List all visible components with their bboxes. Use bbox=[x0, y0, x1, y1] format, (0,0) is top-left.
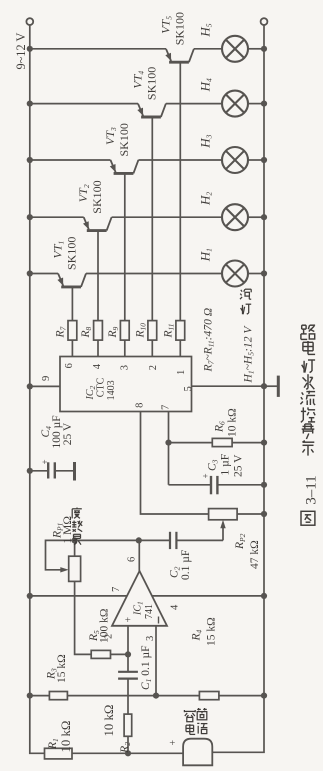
junction ground rail H4 bbox=[261, 101, 267, 107]
wire lamp H5 to ground rail bbox=[248, 48, 264, 50]
svg-text:47 kΩ: 47 kΩ bbox=[249, 540, 261, 569]
lamp H5 bbox=[222, 36, 248, 62]
junction +input node bbox=[125, 651, 131, 657]
electret microphone BM bbox=[183, 739, 212, 766]
resistor R10 bbox=[148, 321, 157, 341]
junction ground rail H5 bbox=[261, 46, 267, 52]
wire emitter VT1 from +rail bbox=[30, 273, 58, 275]
capacitor C2 0.1uF bbox=[170, 532, 176, 549]
wire R11 to IC2 pin bbox=[179, 340, 181, 356]
junction +rail row H5... node bbox=[27, 270, 33, 276]
transistor VT2 SK100 (PNP) bbox=[83, 217, 112, 230]
resistor R7 bbox=[68, 321, 77, 341]
wire R9 to IC2 pin bbox=[124, 340, 126, 356]
junction RP1 top bbox=[72, 537, 78, 543]
ground symbol right bbox=[264, 385, 278, 387]
junction +rail R3 bbox=[27, 693, 33, 699]
svg-text:3–11: 3–11 bbox=[304, 475, 320, 504]
transistor VT3 SK100 (PNP) bbox=[110, 160, 139, 173]
resistor R1 10k bbox=[45, 748, 73, 759]
junction +rail C4 bbox=[27, 468, 33, 474]
wire RP2 to ground rail bbox=[237, 513, 264, 515]
svg-text:7: 7 bbox=[111, 587, 122, 592]
svg-text:3: 3 bbox=[145, 636, 156, 641]
svg-text:SK100: SK100 bbox=[145, 67, 159, 100]
svg-text:10 kΩ: 10 kΩ bbox=[227, 408, 239, 437]
svg-text:4: 4 bbox=[92, 363, 103, 369]
resistor R5 100k bbox=[91, 650, 110, 658]
wire R6 to ground rail bbox=[232, 442, 264, 444]
resistor R4 15k bbox=[199, 692, 219, 700]
svg-text:4: 4 bbox=[170, 604, 181, 610]
junction ground rail pin5 bbox=[261, 383, 267, 389]
svg-text:SK100: SK100 bbox=[90, 180, 104, 213]
wire C1 to R2 (crosses bias wire) bbox=[127, 679, 129, 715]
wire RP1 bottom to R5 bbox=[75, 581, 92, 654]
label mic hanzi DianRongHuaTong bbox=[184, 710, 195, 722]
label sensitivity hanzi bbox=[72, 508, 82, 519]
junction +rail row H1... node bbox=[27, 46, 33, 52]
transistor VT4 SK100 (PNP) bbox=[137, 104, 166, 117]
wire lamp H4 to ground rail bbox=[248, 103, 264, 105]
capacitor C4 100uF 25V electrolytic bbox=[48, 462, 74, 478]
op-amp IC1 741 triangle bbox=[112, 571, 167, 626]
minus input mark bbox=[158, 617, 160, 624]
junction pin7 node bbox=[165, 440, 171, 446]
capacitor C1 0.1uF bbox=[118, 672, 138, 679]
lamp H1 bbox=[222, 261, 248, 287]
wire IC2 pin8 down to RP2 bbox=[141, 412, 209, 515]
IC2 CTC1403 box bbox=[60, 357, 192, 412]
svg-text:10 kΩ: 10 kΩ bbox=[59, 721, 73, 753]
junction ground rail H2 bbox=[261, 214, 267, 220]
wire base VT1 to R7 bbox=[71, 287, 73, 321]
svg-text:0.1 µF: 0.1 µF bbox=[180, 550, 192, 580]
svg-text:2: 2 bbox=[148, 365, 159, 370]
potentiometer RP1 1M bbox=[69, 556, 81, 581]
lamp H4 bbox=[222, 91, 248, 117]
wire base VT4 to R10 bbox=[151, 117, 153, 321]
label lamp hanzi DengPao bbox=[240, 289, 251, 299]
wire R3 to R4 bias rail bbox=[67, 695, 199, 697]
wire IC2 pin5 to ground rail bbox=[192, 385, 265, 387]
wire op-amp V- pin4 to ground rail bbox=[152, 595, 264, 597]
svg-text:CTC: CTC bbox=[96, 377, 107, 397]
svg-text:15 kΩ: 15 kΩ bbox=[206, 617, 218, 646]
wire +rail to op-amp V+ pin7 bbox=[30, 595, 127, 597]
svg-text:1 µF: 1 µF bbox=[220, 454, 232, 476]
resistor R3 15k bbox=[49, 692, 67, 700]
wiper RP2 bbox=[222, 527, 224, 540]
resistor R9 bbox=[120, 321, 129, 341]
wire collector VT4 to lamp H4 bbox=[166, 103, 222, 105]
junction ground rail H1 bbox=[261, 270, 267, 276]
junction ground rail H3 bbox=[261, 157, 267, 163]
svg-text:15 kΩ: 15 kΩ bbox=[56, 654, 68, 683]
wire RP1 top jog to wiper bbox=[46, 540, 75, 569]
wire base VT3 to R9 bbox=[124, 173, 126, 320]
wire IC2 pin7 down bbox=[168, 412, 170, 485]
junction ground rail R4 bbox=[261, 693, 267, 699]
resistor R11 bbox=[176, 321, 185, 341]
svg-text:1 MΩ: 1 MΩ bbox=[62, 516, 74, 543]
wire base VT2 to R8 bbox=[97, 231, 99, 321]
wire lamp H3 to ground rail bbox=[248, 159, 264, 161]
svg-text:9: 9 bbox=[41, 376, 52, 381]
junction mic wire R2 bbox=[125, 750, 131, 756]
lamp H2 bbox=[222, 204, 248, 230]
junction output node bbox=[136, 537, 142, 543]
svg-text:SK100: SK100 bbox=[117, 123, 131, 156]
svg-text:+: + bbox=[40, 459, 50, 464]
junction +rail row H2... node bbox=[27, 101, 33, 107]
svg-text:1: 1 bbox=[176, 370, 187, 375]
wire lamp H1 to ground rail bbox=[248, 273, 264, 275]
wire +rail to R3 bbox=[30, 695, 50, 697]
svg-text:SK100: SK100 bbox=[173, 12, 187, 45]
wire collector VT5 to lamp H5 bbox=[194, 48, 222, 50]
svg-text:10 kΩ: 10 kΩ bbox=[102, 705, 116, 737]
wire node to C3 bbox=[169, 484, 212, 486]
wire -input down from triangle bbox=[155, 626, 157, 696]
junction +rail row H3... node bbox=[27, 157, 33, 163]
wire collector VT2 to lamp H2 bbox=[112, 216, 222, 218]
transistor VT5 SK100 (PNP) bbox=[165, 49, 194, 62]
wire base VT5 to R11 bbox=[179, 62, 181, 320]
svg-text:741: 741 bbox=[144, 604, 155, 619]
lamp H3 bbox=[222, 147, 248, 173]
wire R7 to IC2 pin bbox=[71, 340, 73, 356]
wire R10 to IC2 pin bbox=[151, 340, 153, 356]
resistor R2 10k vertical bbox=[124, 714, 132, 736]
transistor VT1 SK100 (PNP) bbox=[57, 274, 86, 287]
wire node to R6 bbox=[169, 442, 213, 444]
svg-text:+: + bbox=[124, 617, 135, 623]
wire C2 to RP2 wiper bbox=[176, 539, 223, 541]
svg-text:1403: 1403 bbox=[106, 380, 117, 400]
svg-text:SK100: SK100 bbox=[65, 237, 79, 270]
junction ground rail pin4 bbox=[261, 593, 267, 599]
wire emitter VT4 from +rail bbox=[30, 103, 138, 105]
wire IC2 pin9 to +rail bbox=[30, 385, 60, 387]
svg-text:8: 8 bbox=[135, 403, 146, 408]
svg-text:7: 7 bbox=[161, 405, 172, 410]
wire collector VT1 to lamp H1 bbox=[86, 273, 222, 275]
wire output node to RP1 top bbox=[75, 539, 139, 541]
capacitor C3 1uF 25V electrolytic bbox=[211, 476, 217, 494]
junction ground rail C3 bbox=[261, 482, 267, 488]
ground-rail terminal bbox=[261, 18, 268, 25]
svg-text:3: 3 bbox=[120, 365, 131, 370]
wire emitter VT3 from +rail bbox=[30, 159, 111, 161]
wire emitter VT5 from +rail bbox=[30, 48, 166, 50]
svg-text:6: 6 bbox=[64, 363, 75, 368]
potentiometer RP2 47k bbox=[209, 509, 238, 520]
junction +rail opamp bbox=[27, 593, 33, 599]
wire +rail to C4 bbox=[30, 470, 48, 472]
wire emitter VT2 from +rail bbox=[30, 216, 84, 218]
wire op-amp output up bbox=[138, 540, 140, 571]
caption figure 3-11 bbox=[301, 325, 315, 339]
wire output node to C2 bbox=[139, 539, 170, 541]
wire R2 to mic wire bbox=[127, 736, 129, 753]
junction -input bias node bbox=[153, 693, 159, 699]
svg-text:+: + bbox=[168, 740, 179, 746]
wire +input down from triangle bbox=[127, 626, 129, 672]
junction +rail pin9 bbox=[27, 383, 33, 389]
wire R5 to +input node bbox=[111, 653, 129, 655]
junction ground rail R6 bbox=[261, 440, 267, 446]
svg-text:+: + bbox=[201, 473, 211, 478]
power rail 9~12V (landscape top rail, portrait left vertical) bbox=[30, 25, 183, 753]
svg-text:6: 6 bbox=[126, 557, 137, 562]
svg-text:9~12 V: 9~12 V bbox=[14, 33, 28, 70]
wire lamp H2 to ground rail bbox=[248, 216, 264, 218]
svg-text:C1 0.1 µF: C1 0.1 µF bbox=[140, 645, 153, 690]
svg-text:25 V: 25 V bbox=[62, 422, 74, 445]
wire collector VT3 to lamp H3 bbox=[138, 159, 222, 161]
resistor R8 bbox=[94, 321, 103, 341]
wire C3 to ground rail bbox=[217, 484, 264, 486]
wire R4 to ground rail bbox=[219, 695, 264, 697]
ground rail (portrait right vertical) bbox=[212, 25, 264, 752]
wire R8 to IC2 pin bbox=[97, 340, 99, 356]
svg-text:2: 2 bbox=[104, 634, 115, 639]
svg-text:25 V: 25 V bbox=[233, 454, 245, 477]
junction +rail row H4... node bbox=[27, 214, 33, 220]
resistor R6 bbox=[212, 438, 232, 446]
ground symbol below C4 bbox=[73, 462, 76, 481]
wiper RP1 arrow bbox=[60, 567, 68, 572]
supply terminal + bbox=[26, 18, 33, 25]
junction ground rail RP2 bbox=[261, 511, 267, 517]
